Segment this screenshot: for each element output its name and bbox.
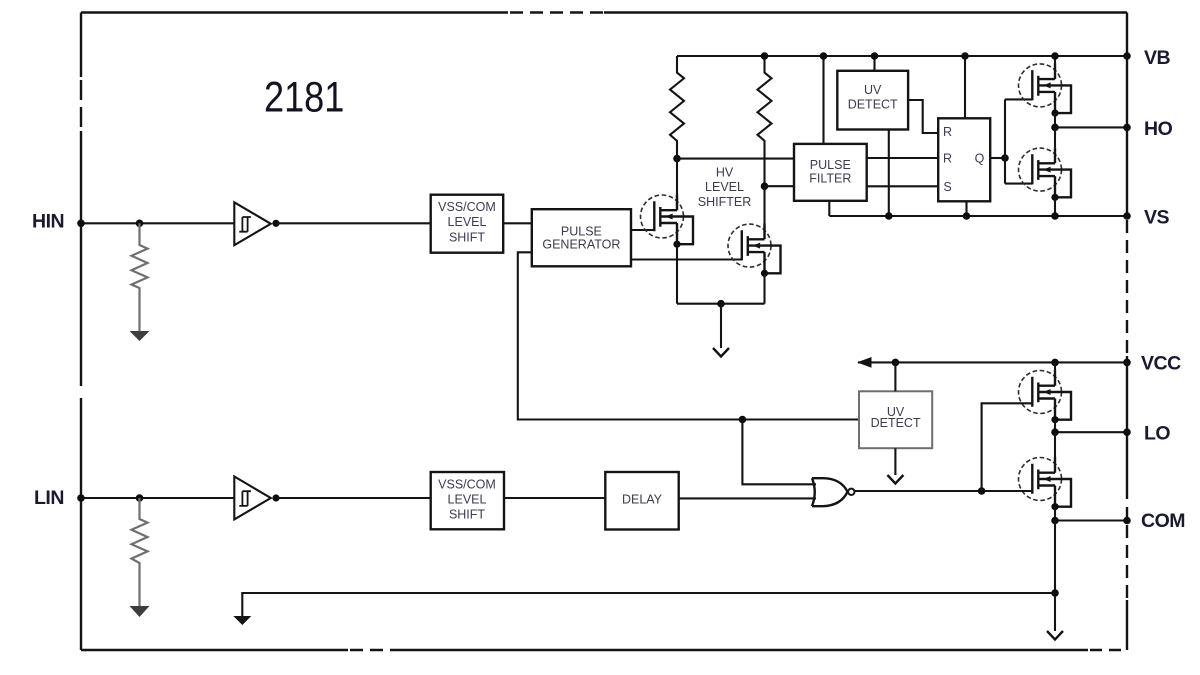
wire VS rail xyxy=(829,215,1127,217)
wire VCC rail xyxy=(858,361,1127,363)
node COM junction xyxy=(1051,517,1059,525)
node Q1 drain at VB xyxy=(1051,52,1059,60)
wire UV detect bottom to VS rail xyxy=(888,130,890,217)
buffer U3 schmitt input LIN xyxy=(234,477,270,520)
chip outline left border xyxy=(80,13,82,651)
svg-text:COM: COM xyxy=(1141,510,1185,532)
wire UV detect output to latch R xyxy=(908,100,938,133)
wire Q1 source to HO xyxy=(1054,113,1056,127)
node LO pin xyxy=(1123,428,1131,436)
wire to VS arrow xyxy=(720,304,722,348)
svg-text:DELAY: DELAY xyxy=(622,493,663,507)
resistor R3 HV bias left xyxy=(670,56,684,159)
svg-text:S: S xyxy=(943,180,951,194)
node LIN pulldown junction xyxy=(136,494,144,502)
node buffer U1 output xyxy=(272,220,279,227)
svg-text:SHIFTER: SHIFTER xyxy=(698,195,751,209)
svg-text:LEVEL: LEVEL xyxy=(448,492,487,506)
node Q2 source at VS xyxy=(1051,212,1059,220)
wire gate of Q4 xyxy=(631,258,742,260)
wire gate of Q3 xyxy=(631,229,655,231)
wire level shift to pulse generator xyxy=(503,222,532,224)
node interlock junction xyxy=(739,416,747,424)
resistor R4 HV bias right xyxy=(758,56,772,186)
wire Q6 source to COM xyxy=(1054,507,1056,521)
wire Q3 drain xyxy=(676,159,678,210)
wire branch up to Q5 gate xyxy=(982,403,1033,491)
svg-text:FILTER: FILTER xyxy=(809,171,851,185)
svg-text:SHIFT: SHIFT xyxy=(449,230,485,244)
wire Q5 source to LO xyxy=(1054,420,1056,433)
svg-text:Q: Q xyxy=(975,151,985,165)
svg-text:UV: UV xyxy=(864,83,882,97)
wire VB to pulse filter top xyxy=(822,56,824,144)
wire Q4 source down xyxy=(763,273,765,303)
block VSS/COM LEVEL SHIFT (low side) xyxy=(431,472,504,529)
wire Q3 source down xyxy=(676,244,678,304)
svg-text:VB: VB xyxy=(1144,47,1171,69)
wire Q2 drain to HO xyxy=(1054,127,1056,147)
wire Q1 drain to VB xyxy=(1054,56,1056,64)
label HV LEVEL SHIFTER xyxy=(698,165,751,209)
resistor R2 LIN pulldown xyxy=(130,498,150,617)
svg-text:VCC: VCC xyxy=(1141,353,1181,375)
wire pulse filter to latch R xyxy=(867,157,939,159)
node LO junction xyxy=(1051,428,1059,436)
node HIN pin xyxy=(77,220,85,228)
node HO junction xyxy=(1051,124,1059,132)
block PULSE GENERATOR xyxy=(532,209,631,266)
block UV DETECT (low side) xyxy=(859,391,932,448)
transistor Q2 high side output lower xyxy=(1019,148,1072,201)
svg-text:PULSE: PULSE xyxy=(561,225,602,239)
node UV detect top at VB xyxy=(871,52,879,60)
wire buffer U3 to level shift xyxy=(276,497,431,499)
wire COM down xyxy=(1054,521,1056,632)
node LIN pin xyxy=(77,494,85,502)
transistor Q3 HV level shifter left xyxy=(641,195,694,248)
node R4 top xyxy=(761,52,769,60)
wire pulse filter bottom to VS rail xyxy=(828,201,830,216)
wire COM rail xyxy=(1055,519,1127,521)
wire R3 node to pulse filter xyxy=(677,158,794,160)
svg-text:HV: HV xyxy=(716,165,734,179)
svg-text:DETECT: DETECT xyxy=(848,97,898,111)
wire level shifter common source rail xyxy=(677,303,765,305)
wire HIN input xyxy=(81,222,234,224)
wire R4 node to pulse filter xyxy=(765,185,795,187)
node COM pin xyxy=(1123,517,1131,525)
node NOR output branch xyxy=(978,487,986,495)
node level shifter source midpoint xyxy=(717,300,725,308)
node UV detect bottom at VS xyxy=(885,212,893,220)
wire VCC to UV2 top xyxy=(894,362,896,391)
wire gate of Q1 xyxy=(1005,98,1032,100)
latch U2 RS xyxy=(938,118,990,201)
ground arrow bottom right xyxy=(1047,631,1063,640)
transistor Q6 low side output lower xyxy=(1019,457,1072,510)
svg-text:R: R xyxy=(943,152,952,166)
svg-text:LEVEL: LEVEL xyxy=(705,180,744,194)
wire Q2 source to VS xyxy=(1054,197,1056,216)
svg-text:LO: LO xyxy=(1144,423,1170,445)
transistor Q5 low side output upper xyxy=(1019,370,1072,423)
wire VB to latch top xyxy=(964,56,966,118)
wire LIN input xyxy=(81,497,234,499)
gate G1 NOR xyxy=(812,478,855,506)
wire interlock to NOR input xyxy=(742,420,816,485)
wire pulse filter to latch S xyxy=(867,185,939,187)
block PULSE FILTER xyxy=(794,144,867,201)
wire gate of Q2 xyxy=(1005,183,1032,185)
node R3 bottom xyxy=(673,155,681,163)
wire Q4 drain xyxy=(763,186,765,239)
node latch bottom at VS xyxy=(963,212,971,220)
wire VB to UV detect top xyxy=(873,56,875,71)
node pulse filter top at VB xyxy=(820,52,828,60)
wire pulse generator to LIN interlock (down long run) xyxy=(518,252,859,419)
wire COM return long run xyxy=(242,593,1055,616)
block VSS/COM LEVEL SHIFT (high side) xyxy=(431,195,504,253)
svg-text:GENERATOR: GENERATOR xyxy=(542,237,620,251)
wire Q6 drain to LO xyxy=(1054,432,1056,457)
chip outline right border xyxy=(1126,13,1128,651)
wire LO rail xyxy=(1055,431,1127,433)
transistor Q4 HV level shifter right xyxy=(728,224,781,277)
svg-text:VS: VS xyxy=(1144,207,1170,229)
node COM return junction xyxy=(1051,589,1059,597)
svg-text:HIN: HIN xyxy=(32,211,64,233)
wire VB rail xyxy=(677,55,1127,57)
svg-text:LEVEL: LEVEL xyxy=(448,215,487,229)
node buffer U3 output xyxy=(272,494,279,501)
ground arrow below UV2 xyxy=(887,475,903,484)
buffer U1 schmitt input HIN xyxy=(234,202,270,245)
wire latch bottom to VS rail xyxy=(965,201,967,216)
node R4 bottom xyxy=(761,182,769,190)
node latch top at VB xyxy=(961,52,969,60)
arrow VCC left xyxy=(857,357,872,368)
svg-text:VSS/COM: VSS/COM xyxy=(438,200,496,214)
ground VS arrow (level shifter) xyxy=(713,348,729,357)
node Q gate node xyxy=(1001,154,1009,162)
svg-text:PULSE: PULSE xyxy=(810,158,851,172)
wire HO rail xyxy=(1055,126,1127,128)
node VS pin xyxy=(1123,212,1131,220)
wire buffer U1 to level shift xyxy=(276,222,431,224)
chip outline bottom border xyxy=(81,649,1127,651)
svg-text:SHIFT: SHIFT xyxy=(449,508,485,522)
svg-text:HO: HO xyxy=(1144,118,1173,140)
svg-text:R: R xyxy=(943,125,952,139)
wire Q5 drain to VCC xyxy=(1054,362,1056,370)
node HO pin xyxy=(1123,124,1131,132)
wire delay to NOR input xyxy=(679,497,816,499)
block UV DETECT (high side) xyxy=(837,71,908,130)
svg-text:VSS/COM: VSS/COM xyxy=(438,477,496,491)
wire UV2 bottom xyxy=(894,448,896,475)
transistor Q1 high side output upper xyxy=(1019,63,1072,116)
node UV2 top at VCC xyxy=(892,359,900,367)
svg-text:LIN: LIN xyxy=(34,487,64,509)
node VB pin xyxy=(1123,52,1131,60)
svg-text:DETECT: DETECT xyxy=(871,416,921,430)
wire level shift to delay xyxy=(504,497,605,499)
node Q5 drain at VCC xyxy=(1051,359,1059,367)
node VCC pin xyxy=(1123,359,1131,367)
wire NOR output xyxy=(855,490,1033,492)
wire latch Q output xyxy=(990,157,1005,159)
chip outline top border xyxy=(81,11,1127,13)
resistor R1 HIN pulldown xyxy=(130,223,150,341)
node HIN pulldown junction xyxy=(136,220,144,228)
wire gate node vertical xyxy=(1004,99,1006,183)
arrow COM return down xyxy=(233,616,251,625)
block DELAY xyxy=(605,472,678,530)
svg-text:2181: 2181 xyxy=(264,74,344,122)
